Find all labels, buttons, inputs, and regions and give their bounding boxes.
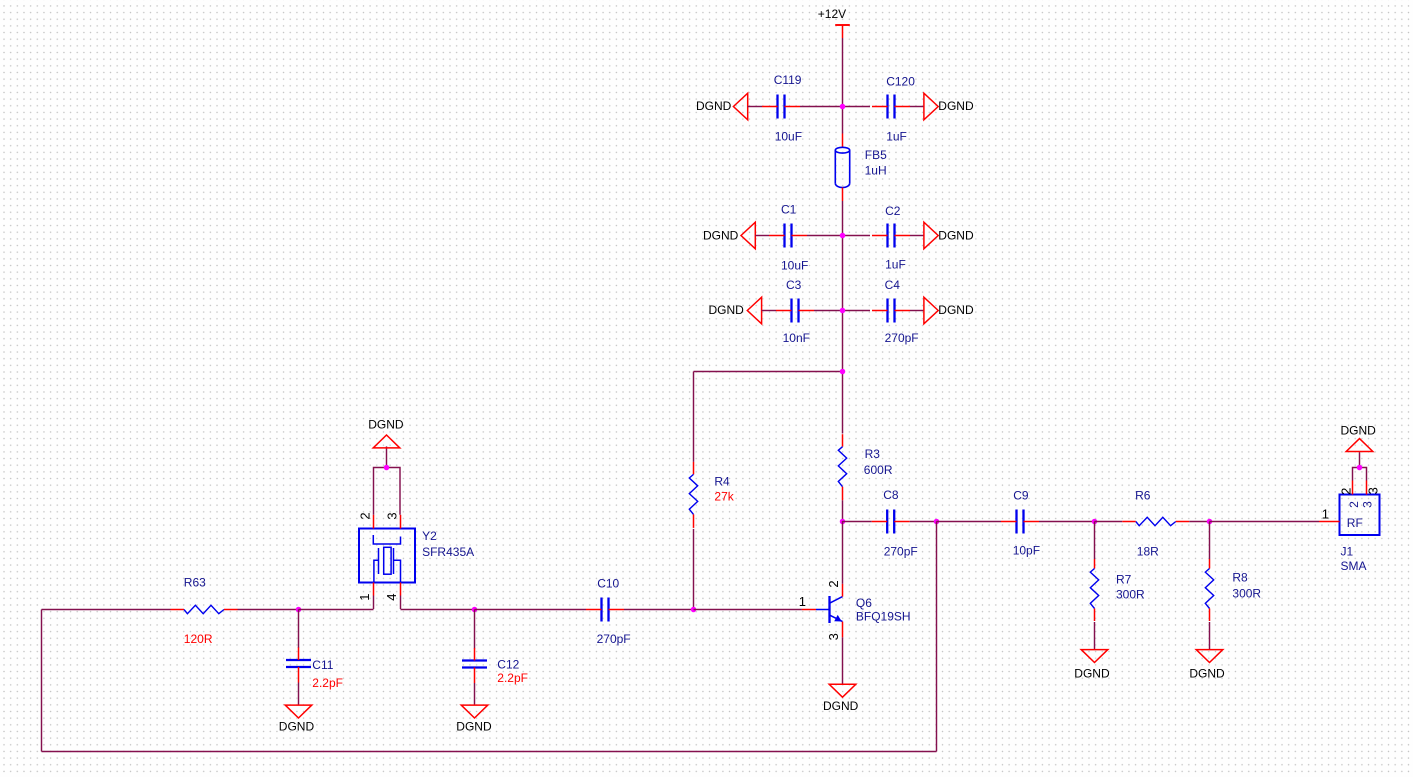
svg-text:SMA: SMA <box>1341 559 1367 573</box>
wire feedback riser <box>936 522 938 752</box>
svg-text:Q6: Q6 <box>856 596 872 610</box>
resistor R7 <box>1090 559 1098 621</box>
wire R4 to base node <box>693 529 695 609</box>
svg-text:DGND: DGND <box>696 99 732 113</box>
capacitor C120 <box>872 95 910 119</box>
wire node to C9 <box>937 521 1002 523</box>
wire +12V net vertical <box>842 38 844 134</box>
svg-text:1: 1 <box>799 594 806 609</box>
ground DGND right of C4 <box>924 297 974 324</box>
wire node down to R8 <box>1209 522 1211 560</box>
filter Y2 body <box>359 529 415 583</box>
wire C4 to DGND <box>910 310 924 312</box>
svg-text:R8: R8 <box>1232 570 1248 584</box>
svg-text:FB5: FB5 <box>865 148 887 162</box>
wire node to J1 <box>1210 521 1320 523</box>
ground DGND below R8 <box>1189 650 1225 681</box>
wire R7 to DGND <box>1094 622 1096 650</box>
svg-text:4: 4 <box>384 593 399 600</box>
svg-text:2: 2 <box>1347 501 1361 508</box>
wire node down to C12 <box>474 610 476 649</box>
junction R7 node <box>1092 519 1098 525</box>
svg-text:C119: C119 <box>774 73 802 87</box>
svg-text:C120: C120 <box>886 74 915 88</box>
svg-text:C3: C3 <box>786 278 802 292</box>
wire feedback bottom <box>42 751 937 753</box>
wire C10 to R4 node <box>624 609 694 611</box>
svg-text:R3: R3 <box>865 447 881 461</box>
wire C2 to DGND <box>910 235 924 237</box>
svg-text:DGND: DGND <box>368 418 404 432</box>
resistor R63 <box>171 605 238 613</box>
capacitor C12 <box>462 648 487 683</box>
wire C1 node to C3 node <box>842 236 844 311</box>
svg-text:2: 2 <box>1339 488 1354 495</box>
wire R8 to DGND <box>1209 622 1211 650</box>
svg-text:DGND: DGND <box>1189 666 1225 680</box>
svg-text:1uF: 1uF <box>885 257 906 271</box>
svg-text:10uF: 10uF <box>781 259 808 273</box>
ground DGND below C12 <box>456 705 492 733</box>
svg-text:R4: R4 <box>714 475 730 489</box>
wire node to Q6 base <box>694 609 802 611</box>
resistor R4 <box>689 462 697 528</box>
ground DGND right of C2 <box>924 222 974 249</box>
power +12V <box>818 7 850 38</box>
ground DGND below Q6 <box>823 684 859 713</box>
ground DGND left of C3 <box>709 297 762 324</box>
ground DGND left of C119 <box>696 93 748 120</box>
wire C3 to node <box>814 310 843 312</box>
svg-text:DGND: DGND <box>1341 424 1377 438</box>
svg-text:2.2pF: 2.2pF <box>312 676 343 690</box>
connector J1 <box>1319 481 1380 536</box>
svg-text:2.2pF: 2.2pF <box>497 671 528 685</box>
svg-text:C12: C12 <box>497 657 519 671</box>
svg-text:DGND: DGND <box>1074 666 1110 680</box>
wire C120 to DGND <box>910 106 924 108</box>
svg-text:DGND: DGND <box>938 229 974 243</box>
capacitor C8 <box>872 510 910 534</box>
wire node to Y2 pin1 <box>299 609 374 611</box>
svg-text:C11: C11 <box>312 658 333 672</box>
junction C1/C2 node <box>840 233 846 239</box>
wire J1 pins 2-3 tie <box>1353 468 1367 481</box>
capacitor C4 <box>872 299 910 323</box>
capacitor C1 <box>769 224 807 248</box>
wire node down to C11 <box>298 610 300 649</box>
junction Y2 ground tie <box>384 465 390 471</box>
capacitor C119 <box>762 95 800 119</box>
svg-text:DGND: DGND <box>938 99 974 113</box>
svg-text:J1: J1 <box>1341 544 1354 558</box>
svg-text:600R: 600R <box>864 463 893 477</box>
wire DGND to C3 <box>762 310 776 312</box>
wire R63 to C11 node <box>238 609 299 611</box>
resistor R3 <box>838 434 846 500</box>
resistor R6 <box>1122 517 1189 525</box>
svg-text:1uF: 1uF <box>886 129 907 143</box>
wire node to C10 <box>475 609 587 611</box>
junction +12V/C119/C120 <box>840 104 846 110</box>
ground DGND above J1 <box>1341 424 1377 452</box>
junction feedback node <box>934 519 940 525</box>
svg-text:DGND: DGND <box>703 229 739 243</box>
svg-text:120R: 120R <box>184 632 213 646</box>
svg-text:DGND: DGND <box>938 303 974 317</box>
wire DGND to C119 <box>748 106 762 108</box>
wire node to C120 <box>843 106 871 108</box>
svg-text:10uF: 10uF <box>775 129 802 143</box>
wire DGND to C1 <box>755 235 769 237</box>
svg-text:2: 2 <box>357 512 372 519</box>
ground DGND below R7 <box>1074 650 1110 681</box>
svg-text:1: 1 <box>357 593 372 600</box>
junction R4/base node <box>691 607 697 613</box>
svg-text:DGND: DGND <box>456 719 492 733</box>
wire Y2 pin4 to C12 node <box>401 609 475 611</box>
svg-text:BFQ19SH: BFQ19SH <box>856 609 911 623</box>
svg-text:27k: 27k <box>714 490 734 504</box>
wire C119 to +12V node <box>800 106 843 108</box>
wire collector to C8 <box>843 521 872 523</box>
svg-text:C10: C10 <box>597 577 619 591</box>
wire FB5 to C1/C2 node <box>842 201 844 236</box>
svg-text:2: 2 <box>826 580 841 587</box>
wire tie to DGND <box>1359 452 1361 467</box>
junction R4 branch <box>840 369 846 375</box>
pins Y2 <box>374 515 401 596</box>
wire feedback left riser <box>41 610 43 752</box>
svg-text:DGND: DGND <box>709 303 745 317</box>
svg-text:R63: R63 <box>184 575 206 589</box>
wire R3 to collector node <box>842 500 844 521</box>
wire C11 to DGND <box>298 683 300 705</box>
svg-text:R7: R7 <box>1116 572 1132 586</box>
wire branch to R3 <box>842 372 844 434</box>
wire C8 to feedback node <box>910 521 937 523</box>
wire Y2 pin1 down <box>373 596 375 610</box>
svg-text:DGND: DGND <box>823 699 859 713</box>
svg-text:270pF: 270pF <box>597 632 631 646</box>
svg-text:1uH: 1uH <box>865 164 887 178</box>
wire left to R63 <box>42 609 171 611</box>
wire branch to R4 <box>694 371 843 373</box>
capacitor C2 <box>872 224 910 248</box>
svg-text:C9: C9 <box>1013 489 1029 503</box>
junction C11 node <box>296 607 302 613</box>
ground DGND above Y2 <box>368 418 404 448</box>
junction R8 node <box>1207 519 1213 525</box>
junction C3/C4 node <box>840 308 846 314</box>
svg-text:C4: C4 <box>885 278 901 292</box>
svg-text:C1: C1 <box>781 203 797 217</box>
wire Y2 pin4 down <box>400 596 402 610</box>
svg-text:DGND: DGND <box>279 719 315 733</box>
wire node to C2 <box>843 235 871 237</box>
svg-text:10pF: 10pF <box>1013 544 1040 558</box>
svg-text:3: 3 <box>1366 487 1381 494</box>
wire emitter to DGND <box>842 637 844 684</box>
resistor R8 <box>1205 559 1213 621</box>
wire Y2 pins 2-3 tie <box>374 468 401 515</box>
capacitor C9 <box>1001 510 1039 534</box>
wire down to R4 <box>693 372 695 462</box>
svg-text:1: 1 <box>1322 506 1329 521</box>
svg-text:C2: C2 <box>885 204 901 218</box>
svg-text:C8: C8 <box>883 488 899 502</box>
ground DGND left of C1 <box>703 222 755 249</box>
wire node down to R7 <box>1094 522 1096 560</box>
svg-text:R6: R6 <box>1135 488 1151 502</box>
svg-text:270pF: 270pF <box>885 331 919 345</box>
svg-text:3: 3 <box>826 633 841 640</box>
wire node to C4 <box>843 310 871 312</box>
wire collector <box>842 521 844 584</box>
svg-text:SFR435A: SFR435A <box>422 545 474 559</box>
svg-text:18R: 18R <box>1137 545 1159 559</box>
svg-text:270pF: 270pF <box>884 544 918 558</box>
junction collector node <box>840 519 846 525</box>
wire C9 to R7 node <box>1039 521 1095 523</box>
capacitor C10 <box>586 598 624 622</box>
svg-text:10nF: 10nF <box>783 331 810 345</box>
capacitor C11 <box>286 648 311 683</box>
wire C1 to node <box>807 235 843 237</box>
wire node to R6 <box>1095 521 1123 523</box>
svg-text:Y2: Y2 <box>422 529 437 543</box>
capacitor C3 <box>776 299 814 323</box>
wire tie to DGND Y2 <box>386 446 388 467</box>
junction J1 ground tie <box>1357 465 1363 471</box>
svg-text:+12V: +12V <box>818 7 846 21</box>
svg-text:300R: 300R <box>1232 587 1261 601</box>
inductor FB5 <box>835 134 849 202</box>
svg-text:3: 3 <box>384 512 399 519</box>
svg-text:3: 3 <box>1361 501 1375 508</box>
ground DGND right of C120 <box>924 93 974 120</box>
wire R6 to R8 node <box>1189 521 1209 523</box>
wire C3 node to R4 branch <box>842 311 844 372</box>
svg-text:RF: RF <box>1347 516 1363 530</box>
transistor Q6 <box>802 584 843 638</box>
svg-text:300R: 300R <box>1116 587 1145 601</box>
wire C12 to DGND <box>474 683 476 705</box>
junction C12 node <box>472 607 478 613</box>
ground DGND below C11 <box>279 705 315 733</box>
